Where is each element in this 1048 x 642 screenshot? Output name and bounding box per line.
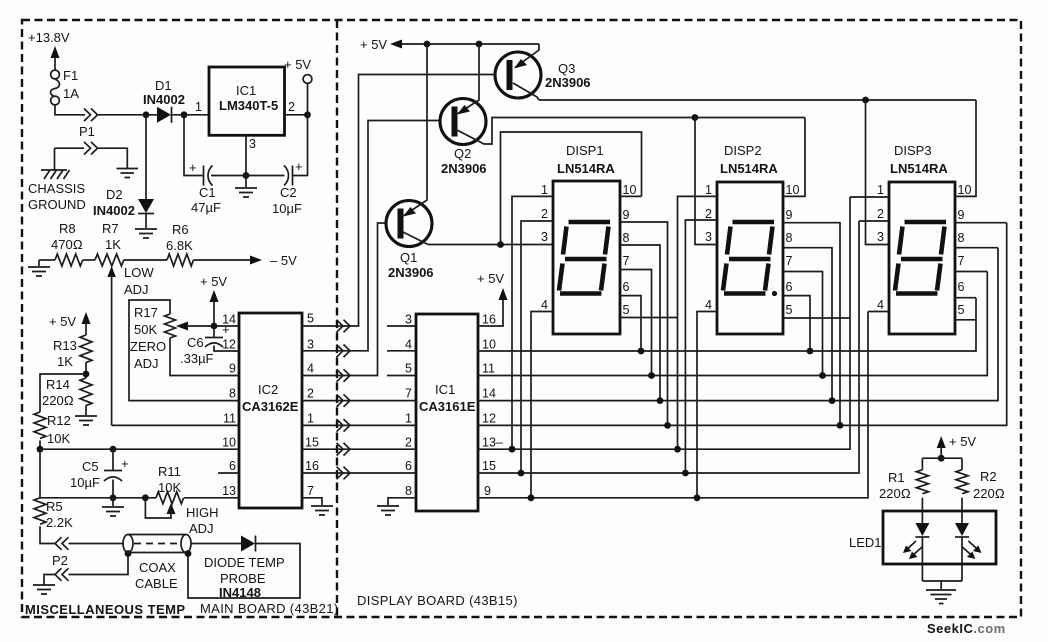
ground below R14: [75, 405, 97, 425]
svg-text:220Ω: 220Ω: [879, 486, 911, 501]
wire IC2 pin11 row: [112, 424, 239, 426]
wire DISP3 pin1 stub to row e corner: [850, 196, 889, 198]
svg-text:MISCELLANEOUS TEMP: MISCELLANEOUS TEMP: [25, 602, 186, 617]
DISP2 left pin labels: [705, 183, 712, 312]
svg-text:5: 5: [307, 312, 314, 326]
svg-text:8: 8: [786, 231, 793, 245]
node junction dot C5 bottom: [110, 494, 117, 501]
svg-text:8: 8: [405, 484, 412, 498]
node dot DISP1 pin4: [528, 494, 535, 501]
IC1 pin5 stub: [387, 375, 416, 377]
svg-text:3: 3: [877, 230, 884, 244]
svg-text:5: 5: [623, 303, 630, 317]
IC1 pin16 +5V stub: [478, 288, 508, 326]
svg-text:DISPLAY BOARD (43B15): DISPLAY BOARD (43B15): [357, 593, 518, 608]
svg-text:DISP2: DISP2: [724, 143, 762, 158]
svg-text:2: 2: [288, 100, 295, 114]
diode D2 IN4002 vertical: [138, 115, 154, 228]
wire coax center to probe diode: [191, 543, 241, 545]
label D2 IN4002: [93, 187, 135, 218]
wire P2 pin2 to coax shield: [69, 554, 129, 575]
wire P1 row2: [55, 148, 128, 168]
svg-text:R5: R5: [46, 499, 63, 514]
resistor R7 1K potentiometer: [95, 254, 124, 266]
node junction dot R13 R14: [83, 371, 90, 378]
label IC2 CA3162E: [242, 382, 299, 414]
svg-text:+ 5V: + 5V: [360, 37, 387, 52]
svg-text:10µF: 10µF: [70, 475, 100, 490]
node dot DISP2 pin6: [807, 348, 814, 355]
svg-text:470Ω: 470Ω: [51, 237, 83, 252]
svg-text:+ 5V: + 5V: [200, 274, 227, 289]
resistor R13 1K vertical: [80, 335, 92, 363]
svg-text:5: 5: [786, 303, 793, 317]
svg-text:10: 10: [958, 183, 972, 197]
coax cable cylinder: [123, 535, 191, 553]
ground below C5: [102, 498, 124, 516]
svg-text:6: 6: [229, 459, 236, 473]
wire Q3 collector line: [539, 99, 976, 101]
resistor R12 10K vertical: [34, 412, 46, 438]
LED D right: [955, 498, 981, 581]
wire DISP2 pin7 to row b: [783, 272, 823, 376]
node junction dot pin14 row: [211, 323, 218, 330]
wire segment row e IC1 pin13: [478, 197, 850, 449]
svg-text:R2: R2: [980, 469, 997, 484]
svg-text:MAIN BOARD (43B21): MAIN BOARD (43B21): [200, 601, 339, 616]
node junction dot D2 tap: [143, 111, 150, 118]
connector P1 pin1 chevron: [84, 109, 98, 122]
wire row IC2 pin5 to Q3 base riser: [302, 75, 497, 327]
svg-text:2: 2: [877, 207, 884, 221]
svg-text:8: 8: [958, 231, 965, 245]
svg-text:R1: R1: [888, 470, 905, 485]
IC2 CA3162E box: [239, 313, 302, 508]
svg-text:LN514RA: LN514RA: [557, 161, 615, 176]
wire DISP1 pin10 stub: [620, 195, 642, 197]
transistor Q3 2N3906: [495, 44, 541, 100]
wire row IC2 pin4 to Q1 base riser: [302, 223, 386, 376]
wire segment row c IC1 pin14: [478, 248, 998, 401]
svg-text:ADJ: ADJ: [134, 356, 159, 371]
svg-text:7: 7: [958, 254, 965, 268]
wire segment row f IC1 pin15: [478, 221, 859, 473]
wire cap row right: [246, 115, 308, 176]
fuse F1: [51, 70, 60, 105]
pot wiper R17 arrow: [176, 322, 239, 331]
IC1 pin4 stub: [387, 350, 416, 352]
svg-text:16: 16: [305, 459, 319, 473]
wire segment row d IC1 pin12: [478, 223, 1007, 426]
svg-text:12: 12: [222, 338, 236, 352]
node junction dot row10 left: [37, 446, 44, 453]
svg-text:Q1: Q1: [400, 250, 417, 265]
ground below LED1: [926, 590, 956, 604]
wire P2 pin1 to coax: [69, 543, 125, 545]
svg-text:7: 7: [307, 484, 314, 498]
svg-text:9: 9: [786, 208, 793, 222]
label D1 IN4002: [143, 78, 185, 107]
svg-text:ZERO: ZERO: [130, 339, 166, 354]
label DISP2 LN514RA: [720, 143, 778, 176]
regulator IC1 LM340T-5 box: [209, 67, 285, 135]
svg-text:IN4002: IN4002: [93, 203, 135, 218]
wire R7 to R6: [124, 259, 167, 261]
svg-text:9: 9: [623, 208, 630, 222]
wire Q1 loop to DISP1 pin10: [501, 132, 642, 245]
svg-text:IC1: IC1: [435, 382, 455, 397]
wire DISP1 pin5 to shared column: [620, 317, 678, 319]
ground at R8 left: [28, 260, 50, 276]
node dot DISP1 pin9: [664, 422, 671, 429]
svg-text:8: 8: [623, 231, 630, 245]
wire DISP1 pin1 to row e: [512, 196, 553, 449]
node dot DISP2 pin9: [837, 422, 844, 429]
svg-text:C2: C2: [280, 185, 297, 200]
node junction dot R1 R2: [938, 455, 945, 462]
svg-text:3: 3: [541, 230, 548, 244]
wire R1 R2 top tee: [922, 458, 962, 470]
svg-text:R12: R12: [47, 413, 71, 428]
svg-text:DISP1: DISP1: [566, 143, 604, 158]
svg-text:1: 1: [541, 183, 548, 197]
label IC1 CA3161E: [419, 382, 476, 414]
label R13 1K: [53, 338, 77, 369]
wire DISP3 pin3 from Q3 column: [866, 100, 890, 245]
capacitor C1 47uF: [189, 160, 213, 186]
resistor R14 220ohm vertical: [80, 378, 92, 406]
svg-text:CA3162E: CA3162E: [242, 399, 299, 414]
svg-text:2: 2: [307, 387, 314, 401]
node dot DISP1 pin2: [518, 470, 525, 477]
label CHASSIS GROUND: [28, 181, 86, 212]
connector chevron row7: [337, 467, 351, 480]
wire DISP2 pin3 from Q2 column: [695, 118, 717, 245]
capacitor C5 10uF: [104, 449, 129, 498]
svg-text:D1: D1: [155, 78, 172, 93]
svg-text:6: 6: [623, 280, 630, 294]
node junction dot cap row: [243, 172, 250, 179]
svg-text:15: 15: [482, 459, 496, 473]
wire R6 to -5V arrow: [193, 256, 262, 265]
label C6 .33uF: [180, 335, 214, 366]
LED1 box: [883, 511, 996, 564]
svg-text:ADJ: ADJ: [124, 282, 149, 297]
svg-text:6: 6: [958, 280, 965, 294]
svg-text:IN4002: IN4002: [143, 92, 185, 107]
svg-text:CHASSIS: CHASSIS: [28, 181, 85, 196]
svg-text:10K: 10K: [47, 431, 70, 446]
svg-text:4: 4: [405, 338, 412, 352]
svg-text:.33µF: .33µF: [180, 351, 214, 366]
svg-text:R14: R14: [46, 377, 70, 392]
wire DISP2 pin8 to row c: [783, 248, 832, 401]
label R7 1K: [102, 221, 121, 252]
svg-text:+: +: [295, 159, 303, 174]
node +13.8V arrow: [51, 46, 60, 70]
node junction dot coax shield left: [125, 550, 132, 557]
wire IC1 pin3 down: [245, 135, 247, 175]
IC1 pin8 ground: [377, 498, 416, 515]
svg-text:13: 13: [222, 484, 236, 498]
svg-text:1: 1: [195, 100, 202, 114]
seven segment digit DISP2: [723, 222, 777, 296]
connector chevron row5: [337, 419, 351, 432]
label R17 50K ZERO ADJ: [130, 305, 166, 371]
label Q3 2N3906: [545, 61, 591, 90]
wire DISP3 pin2 to row f corner: [859, 220, 889, 222]
svg-text:Q2: Q2: [454, 146, 471, 161]
svg-text:LED1: LED1: [849, 535, 882, 550]
chassis ground symbol: [41, 170, 70, 179]
node dot DISP2 pin8: [829, 397, 836, 404]
label R1 220: [879, 470, 911, 501]
board separator dashed line: [336, 20, 338, 617]
svg-text:C5: C5: [82, 459, 99, 474]
connector P1 pin2 chevron: [84, 142, 98, 155]
svg-text:10: 10: [482, 338, 496, 352]
node dot DISP1 pin1: [509, 446, 516, 453]
potentiometer R17 50K vertical: [165, 314, 176, 338]
svg-text:F1: F1: [63, 68, 78, 83]
svg-text:2: 2: [405, 436, 412, 450]
svg-text:8: 8: [229, 387, 236, 401]
svg-text:LN514RA: LN514RA: [890, 161, 948, 176]
svg-text:+ 5V: + 5V: [949, 434, 976, 449]
label DISP3 LN514RA: [890, 143, 948, 176]
svg-text:7: 7: [623, 254, 630, 268]
label R2 220: [973, 469, 1005, 501]
svg-text:R17: R17: [134, 305, 158, 320]
wire IC2 pin13 row: [40, 497, 239, 499]
node dot DISP1 pin6: [638, 348, 645, 355]
svg-text:6: 6: [786, 280, 793, 294]
label Q2 2N3906: [441, 146, 487, 176]
ground below IC1 pin3: [235, 176, 257, 198]
svg-text:ADJ: ADJ: [189, 521, 214, 536]
node +5V arrow R1 R2: [937, 436, 946, 458]
DISP1 right pin labels: [623, 183, 637, 317]
svg-text:+: +: [189, 160, 197, 175]
label DISP1 LN514RA: [557, 143, 615, 176]
svg-text:47µF: 47µF: [191, 200, 221, 215]
connector chevron row4: [337, 394, 351, 407]
wire R12 to row10: [39, 440, 41, 497]
seven segment digit DISP3: [895, 222, 946, 294]
node junction dot rail Q1: [424, 41, 431, 48]
svg-text:220Ω: 220Ω: [42, 393, 74, 408]
wire DISP2 pin10 stub: [783, 118, 805, 197]
svg-text:+: +: [121, 456, 129, 471]
IC2 pin6 stub: [218, 472, 239, 474]
ground at P1 row2: [117, 169, 139, 178]
svg-text:LOW: LOW: [124, 265, 154, 280]
wire DISP1 pin4 to row g: [531, 312, 553, 498]
wire rail P1 to D1: [98, 114, 158, 116]
connector chevron row6: [337, 443, 351, 456]
resistor R1 220ohm: [916, 470, 928, 494]
svg-text:2: 2: [541, 207, 548, 221]
node junction dot C5 top: [110, 446, 117, 453]
svg-text:15: 15: [305, 436, 319, 450]
label R8 470: [51, 221, 83, 252]
svg-text:DISP3: DISP3: [894, 143, 932, 158]
connector P2 pin1 chevron: [55, 537, 69, 550]
connector P2 pin2 chevron: [55, 568, 69, 581]
display DISP1 LN514RA box: [553, 181, 620, 334]
wire R8 to R7: [83, 259, 95, 261]
svg-text:IN4148: IN4148: [219, 585, 261, 600]
wire row IC2 pin16 to IC1 pin6: [302, 472, 416, 474]
wire DISP2 pin6 to row a: [783, 296, 810, 351]
svg-text:+ 5V: + 5V: [49, 314, 76, 329]
IC1 right pin labels: [482, 313, 503, 499]
wire fuse to rail: [55, 105, 85, 115]
resistor R5 2.2K vertical: [34, 498, 46, 524]
wire segment row a IC1 pin10: [478, 298, 976, 351]
node dot DISP1 pin8: [657, 397, 664, 404]
svg-text:C1: C1: [199, 185, 216, 200]
node dot DISP2 pin2: [682, 470, 689, 477]
pot wiper R11 HIGH ADJ: [145, 498, 175, 518]
label LOW ADJ: [124, 265, 154, 297]
svg-text:D2: D2: [106, 187, 123, 202]
wire DISP3 pin6 stub: [955, 297, 976, 299]
node junction dot Q1 loop: [497, 241, 504, 248]
label C5 10uF: [70, 459, 100, 490]
wire R17 bottom to IC2 pin9: [170, 338, 239, 376]
wire DISP3 pin10 stub: [955, 100, 976, 196]
svg-text:16: 16: [482, 313, 496, 327]
svg-text:LN514RA: LN514RA: [720, 161, 778, 176]
ground P2 pin2: [33, 575, 55, 595]
wire junction left to R12 column: [40, 374, 86, 412]
wire DISP3 pin5 stub: [955, 319, 976, 321]
svg-text:IC2: IC2: [258, 382, 278, 397]
svg-text:PROBE: PROBE: [220, 571, 266, 586]
svg-text:10: 10: [222, 436, 236, 450]
label R6 6.8K: [166, 222, 193, 253]
svg-text:50K: 50K: [134, 322, 157, 337]
node +5V arrow above C6: [210, 290, 219, 326]
svg-text:R6: R6: [172, 222, 189, 237]
svg-text:7: 7: [786, 254, 793, 268]
svg-text:4: 4: [307, 362, 314, 376]
node dot DISP2 pin7: [819, 372, 826, 379]
wire cap row left: [184, 115, 246, 176]
svg-text:14: 14: [222, 313, 236, 327]
DISP1 left pin labels: [541, 183, 548, 312]
svg-text:P1: P1: [79, 124, 95, 139]
svg-text:11: 11: [482, 362, 495, 376]
ground below D2: [135, 229, 157, 238]
svg-text:Q3: Q3: [558, 61, 575, 76]
svg-text:+13.8V: +13.8V: [28, 30, 70, 45]
wire DISP2 pin5 to shared column: [783, 317, 850, 319]
label R5 2.2K: [46, 499, 73, 530]
label F1 1A: [63, 68, 79, 101]
label COAX CABLE: [135, 560, 178, 591]
wire LED cathodes join: [922, 581, 962, 589]
DISP3 left pin labels: [877, 183, 884, 312]
wire R5 to P2: [40, 526, 55, 543]
wire row IC2 pin3 to Q2 base riser: [302, 121, 441, 351]
svg-text:2N3906: 2N3906: [388, 265, 434, 280]
LED D left: [903, 498, 929, 581]
node junction dot +5V out: [304, 111, 311, 118]
wire probe loop: [188, 544, 300, 599]
wire +5V rail with left arrow: [390, 40, 539, 49]
label C1 47uF: [191, 185, 221, 215]
label HIGH ADJ: [186, 505, 219, 536]
wire DISP3 pin7 stub: [955, 271, 987, 273]
wire segment row b IC1 pin11: [478, 272, 987, 376]
svg-text:COAX: COAX: [139, 560, 176, 575]
svg-text:5: 5: [405, 362, 412, 376]
wire D1 to IC1: [172, 114, 210, 116]
node +5V arrow R13: [82, 312, 91, 335]
svg-text:2.2K: 2.2K: [46, 515, 73, 530]
wire row IC2 pin2 to IC1 pin7: [302, 400, 416, 402]
svg-text:GROUND: GROUND: [28, 197, 86, 212]
wire row IC2 pin1 to IC1 pin1: [302, 424, 416, 426]
wire DISP2 pin9 to row d: [783, 223, 840, 426]
label Q1 2N3906: [388, 250, 434, 280]
svg-text:3: 3: [307, 338, 314, 352]
wire DISP2 pin4 to row g: [697, 312, 717, 498]
wire -5V row left end: [39, 259, 55, 261]
svg-text:1: 1: [307, 412, 314, 426]
resistor R2 220ohm: [956, 470, 968, 494]
wire row IC2 pin15 to IC1 pin2: [302, 448, 416, 450]
connector chevron row2: [337, 345, 351, 358]
svg-text:13–: 13–: [482, 436, 503, 450]
pot wiper R7 LOW ADJ arrow: [107, 266, 115, 425]
wire Q1 collector line to DISP1 pin3: [428, 244, 553, 246]
svg-text:9: 9: [229, 362, 236, 376]
wire Q2 collector line: [487, 118, 805, 145]
svg-text:+ 5V: + 5V: [284, 57, 311, 72]
node junction dot rail Q2: [476, 41, 483, 48]
svg-text:CA3161E: CA3161E: [419, 399, 476, 414]
svg-text:– 5V: – 5V: [270, 253, 297, 268]
svg-text:R11: R11: [158, 464, 181, 479]
svg-text:R13: R13: [53, 338, 77, 353]
svg-text:12: 12: [482, 412, 496, 426]
wire DISP2 pin2 to row f: [685, 220, 717, 473]
node dot DISP2 pin1 col: [674, 446, 681, 453]
svg-text:+ 5V: + 5V: [477, 271, 504, 286]
DISP3 right pin labels: [958, 183, 972, 317]
IC2 left pin labels: [222, 313, 236, 499]
wire R13 to R14 junction: [85, 362, 87, 378]
IC1 left pin labels: [405, 313, 412, 499]
wire IC2 pin10 row: [40, 448, 239, 450]
connector chevron row3: [337, 369, 351, 382]
display DISP2 LN514RA box: [717, 182, 783, 334]
svg-text:4: 4: [877, 298, 884, 312]
node junction dot Q2 to DISP2 pin1: [692, 114, 699, 121]
wire IC1 pin2 to +5V node: [285, 114, 308, 116]
svg-text:5: 5: [958, 303, 965, 317]
svg-text:7: 7: [405, 387, 412, 401]
svg-text:10K: 10K: [158, 480, 181, 495]
resistor R11 10K: [156, 492, 184, 504]
label R11 10K: [158, 464, 181, 495]
node junction dot Q3 to DISP3 pin1: [862, 97, 869, 104]
svg-text:HIGH: HIGH: [186, 505, 219, 520]
svg-text:3: 3: [249, 137, 256, 151]
